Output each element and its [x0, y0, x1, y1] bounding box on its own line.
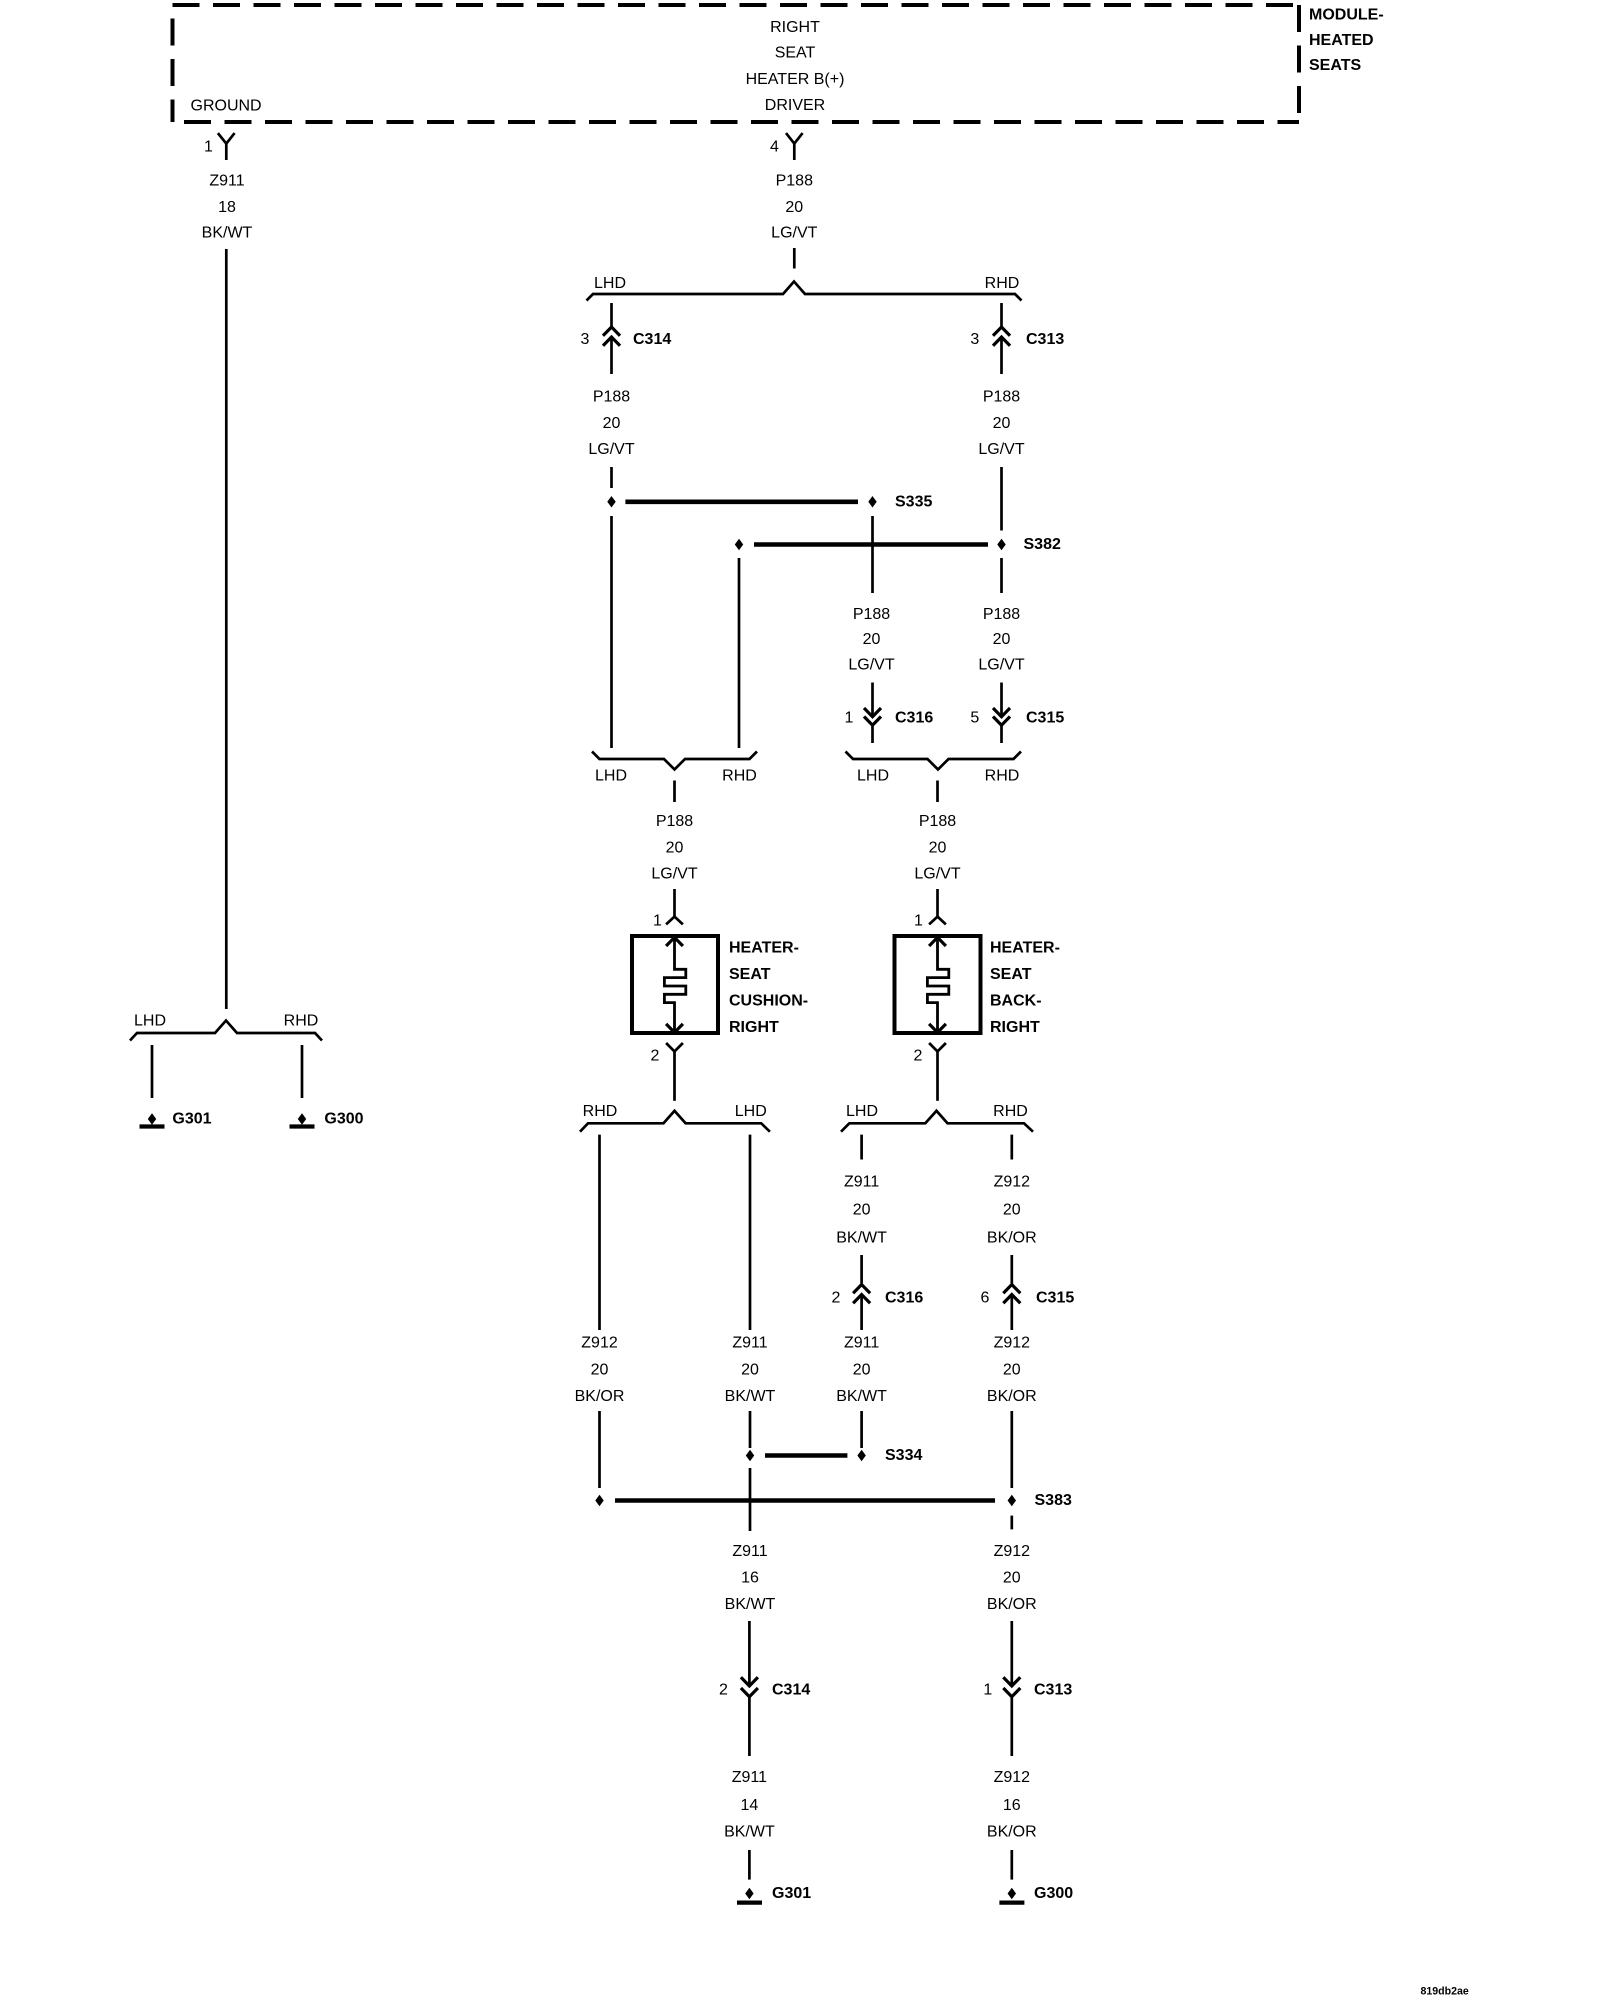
- splice S335: [608, 497, 876, 507]
- value label Z912 20 BK/OR (to C313): [987, 1543, 1037, 1613]
- svg-text:P188: P188: [983, 606, 1020, 623]
- svg-text:LHD: LHD: [595, 768, 627, 785]
- svg-text:BK/WT: BK/WT: [836, 1388, 887, 1405]
- svg-text:3: 3: [581, 331, 590, 348]
- wire col4 to S383: [1010, 1411, 1013, 1488]
- svg-text:S335: S335: [895, 493, 932, 510]
- wire below S382 left tap: [738, 558, 741, 748]
- svg-text:SEAT: SEAT: [729, 966, 771, 983]
- wire to G301: [748, 1850, 751, 1880]
- svg-text:20: 20: [591, 1362, 609, 1379]
- wire cushion feed stub: [673, 781, 676, 803]
- svg-text:20: 20: [1003, 1570, 1021, 1587]
- svg-text:BACK-: BACK-: [990, 993, 1042, 1010]
- wire below S334 crossing S383: [749, 1468, 752, 1531]
- pin 4 (module HEATER B+ pin connector): [786, 133, 803, 160]
- splice S383: [596, 1496, 1016, 1506]
- svg-text:CUSHION-: CUSHION-: [729, 993, 808, 1010]
- svg-text:20: 20: [993, 415, 1011, 432]
- wire col3 to S334: [860, 1411, 863, 1448]
- svg-text:C316: C316: [895, 710, 933, 727]
- wire from S335 down (middle column): [871, 516, 874, 593]
- svg-text:1: 1: [204, 139, 213, 156]
- svg-text:2: 2: [719, 1682, 728, 1699]
- value label P188 20 LG/VT (RHD branch): [978, 389, 1024, 459]
- connector C315 pin 5 (in-line, down): [993, 708, 1010, 725]
- ground G301 (left): [140, 1114, 165, 1126]
- wire stub above S382 right: [1000, 467, 1003, 531]
- svg-text:3: 3: [970, 331, 979, 348]
- value label P188 20 LG/VT (right column): [978, 606, 1024, 674]
- value label P188 20 LG/VT (feed wire): [771, 173, 817, 242]
- svg-text:LG/VT: LG/VT: [978, 657, 1024, 674]
- svg-text:20: 20: [863, 631, 881, 648]
- svg-text:S383: S383: [1035, 1492, 1072, 1509]
- wire col2 to S334: [749, 1411, 752, 1448]
- svg-text:RHD: RHD: [993, 1103, 1028, 1120]
- module title MODULE-HEATED SEATS: [1309, 7, 1384, 75]
- svg-text:RHD: RHD: [985, 768, 1020, 785]
- connector C314 pin 2 (in-line, down): [741, 1677, 758, 1696]
- svg-text:Z911: Z911: [732, 1335, 767, 1352]
- svg-text:C315: C315: [1026, 710, 1064, 727]
- svg-text:P188: P188: [983, 389, 1020, 406]
- svg-text:BK/OR: BK/OR: [987, 1230, 1037, 1247]
- wire LHD ground branch: [151, 1045, 154, 1098]
- svg-text:MODULE-: MODULE-: [1309, 7, 1384, 24]
- svg-text:SEATS: SEATS: [1309, 57, 1361, 74]
- wire to cushion heater pin 1: [673, 889, 676, 917]
- svg-text:C315: C315: [1036, 1290, 1074, 1307]
- svg-text:LHD: LHD: [134, 1013, 166, 1030]
- wire below S382 right (to P188 label): [1000, 558, 1003, 593]
- ground G301 (bottom): [737, 1889, 762, 1903]
- pin 1 (heater-seat cushion-right): [666, 917, 683, 925]
- module box MODULE-HEATED SEATS (dashed outline): [173, 5, 1300, 122]
- svg-text:C313: C313: [1034, 1682, 1072, 1699]
- svg-text:BK/WT: BK/WT: [725, 1596, 776, 1613]
- svg-text:20: 20: [603, 415, 621, 432]
- merge brace LHD/RHD back feed: [846, 752, 1022, 770]
- svg-text:1: 1: [653, 913, 662, 930]
- svg-text:Z912: Z912: [994, 1543, 1031, 1560]
- svg-text:Z911: Z911: [732, 1769, 767, 1786]
- splice S334: [746, 1451, 865, 1461]
- svg-text:BK/OR: BK/OR: [987, 1596, 1037, 1613]
- connector C313 pin 1 (in-line, down): [1003, 1677, 1020, 1696]
- wire back LHD to C316: [860, 1255, 863, 1284]
- svg-text:RIGHT: RIGHT: [729, 1019, 779, 1036]
- svg-text:2: 2: [832, 1290, 841, 1307]
- wire to C314 bottom: [748, 1621, 751, 1686]
- splice S382: [735, 540, 1005, 550]
- svg-text:819db2ae: 819db2ae: [1421, 1986, 1469, 1998]
- svg-text:20: 20: [785, 199, 803, 216]
- svg-text:LHD: LHD: [594, 275, 626, 292]
- svg-text:RHD: RHD: [985, 275, 1020, 292]
- svg-text:RHD: RHD: [722, 768, 757, 785]
- svg-text:14: 14: [741, 1797, 759, 1814]
- wire stub below S383 right: [1010, 1516, 1013, 1530]
- svg-text:20: 20: [993, 631, 1011, 648]
- svg-text:LG/VT: LG/VT: [848, 657, 894, 674]
- svg-text:LG/VT: LG/VT: [651, 866, 697, 883]
- wire P188 stub: [793, 248, 796, 269]
- svg-text:C314: C314: [633, 331, 671, 348]
- svg-text:BK/OR: BK/OR: [987, 1388, 1037, 1405]
- svg-text:S382: S382: [1024, 536, 1061, 553]
- node RIGHT SEAT HEATER B(+) DRIVER (module pin label): [746, 19, 845, 114]
- label HEATER-SEAT CUSHION-RIGHT: [729, 940, 808, 1037]
- svg-text:G300: G300: [1034, 1885, 1073, 1902]
- svg-text:20: 20: [666, 840, 684, 857]
- svg-text:C316: C316: [885, 1290, 923, 1307]
- ground G300 (left): [290, 1114, 315, 1126]
- svg-text:20: 20: [741, 1362, 759, 1379]
- svg-text:6: 6: [981, 1290, 990, 1307]
- svg-text:HEATER-: HEATER-: [990, 940, 1060, 957]
- pin 1 (heater-seat back-right): [929, 917, 946, 925]
- wire cushion RHD return: [598, 1135, 601, 1330]
- connector C316 pin 1 (in-line, down): [864, 708, 881, 725]
- svg-text:DRIVER: DRIVER: [765, 97, 825, 114]
- connector C316 pin 2 (in-line, up): [853, 1285, 870, 1304]
- svg-text:1: 1: [845, 710, 854, 727]
- value label P188 20 LG/VT (back feed): [914, 813, 960, 883]
- svg-text:RHD: RHD: [583, 1103, 618, 1120]
- pin 2 (heater-seat cushion-right): [666, 1043, 683, 1101]
- svg-text:SEAT: SEAT: [775, 45, 816, 62]
- svg-text:20: 20: [853, 1362, 871, 1379]
- svg-text:LG/VT: LG/VT: [914, 866, 960, 883]
- connector C313 pin 3 (in-line, up): [993, 327, 1010, 346]
- svg-text:BK/OR: BK/OR: [575, 1388, 625, 1405]
- svg-text:Z911: Z911: [732, 1543, 767, 1560]
- svg-text:LHD: LHD: [735, 1103, 767, 1120]
- svg-text:Z911: Z911: [844, 1335, 879, 1352]
- svg-text:Z911: Z911: [844, 1174, 879, 1191]
- svg-text:SEAT: SEAT: [990, 966, 1032, 983]
- wire middle column to C316: [871, 683, 874, 717]
- svg-text:LHD: LHD: [857, 768, 889, 785]
- svg-text:Z912: Z912: [994, 1335, 1031, 1352]
- splice brace LHD/RHD ground split: [130, 1021, 322, 1041]
- svg-text:P188: P188: [853, 606, 890, 623]
- connector C314 pin 3 (in-line, up): [603, 327, 620, 346]
- svg-text:18: 18: [218, 199, 236, 216]
- wire stub above S335: [610, 467, 613, 488]
- svg-text:HEATER-: HEATER-: [729, 940, 799, 957]
- svg-text:S334: S334: [885, 1447, 922, 1464]
- svg-text:2: 2: [651, 1048, 660, 1065]
- svg-text:BK/WT: BK/WT: [836, 1230, 887, 1247]
- value label Z911 20 BK/WT (back LHD return): [836, 1174, 887, 1247]
- wire below S335 left: [610, 516, 613, 748]
- svg-text:RHD: RHD: [284, 1013, 319, 1030]
- svg-text:RIGHT: RIGHT: [990, 1019, 1040, 1036]
- wire back RHD to C315: [1010, 1255, 1013, 1284]
- svg-text:BK/WT: BK/WT: [724, 1824, 775, 1841]
- svg-text:C314: C314: [772, 1682, 810, 1699]
- svg-text:RIGHT: RIGHT: [770, 19, 820, 36]
- svg-text:HEATED: HEATED: [1309, 32, 1374, 49]
- svg-text:HEATER B(+): HEATER B(+): [746, 71, 845, 88]
- value label P188 20 LG/VT (cushion feed): [651, 813, 697, 883]
- svg-text:Z912: Z912: [994, 1174, 1031, 1191]
- svg-text:4: 4: [770, 139, 779, 156]
- wire RHD branch to C313: [1000, 303, 1003, 326]
- wire back feed stub: [936, 781, 939, 803]
- wire to C313 bottom: [1010, 1621, 1013, 1686]
- svg-text:P188: P188: [919, 813, 956, 830]
- svg-text:LG/VT: LG/VT: [588, 441, 634, 458]
- ground G300 (bottom): [999, 1889, 1024, 1903]
- pin 2 (heater-seat back-right): [929, 1043, 946, 1101]
- value label P188 20 LG/VT (LHD branch): [588, 389, 634, 459]
- merge brace LHD/RHD cushion feed: [592, 752, 757, 770]
- value label Z912 16 BK/OR (ground leg): [987, 1769, 1037, 1841]
- wire RHD ground branch: [301, 1045, 304, 1098]
- wire back LHD return stub: [860, 1135, 863, 1160]
- svg-text:C313: C313: [1026, 331, 1064, 348]
- svg-text:5: 5: [970, 710, 979, 727]
- label HEATER-SEAT BACK-RIGHT: [990, 940, 1060, 1037]
- value label Z911 18 BK/WT (left wire): [202, 173, 253, 242]
- heater-seat back-right box: [895, 936, 981, 1033]
- wire col1 to S383: [598, 1411, 601, 1488]
- wire right column to C315: [1000, 683, 1003, 717]
- splice brace LHD/RHD feed split: [587, 282, 1022, 301]
- svg-text:16: 16: [1003, 1797, 1021, 1814]
- connector C315 pin 6 (in-line, up): [1003, 1285, 1020, 1304]
- heater element (back): [927, 937, 948, 1032]
- wire to G300: [1010, 1850, 1013, 1880]
- svg-text:G300: G300: [324, 1111, 363, 1128]
- value label Z911 20 BK/WT (col 2): [725, 1335, 776, 1406]
- svg-text:Z912: Z912: [581, 1335, 618, 1352]
- value label Z912 20 BK/OR (back RHD return): [987, 1174, 1037, 1247]
- svg-text:LHD: LHD: [846, 1103, 878, 1120]
- wire to back heater pin 1: [936, 889, 939, 917]
- svg-text:LG/VT: LG/VT: [771, 225, 817, 242]
- value label Z911 14 BK/WT (ground leg): [724, 1769, 775, 1841]
- wire LHD branch to C314: [610, 303, 613, 326]
- wire cushion LHD return: [749, 1135, 752, 1330]
- svg-text:Z911: Z911: [209, 173, 244, 190]
- svg-text:P188: P188: [656, 813, 693, 830]
- svg-text:GROUND: GROUND: [191, 98, 262, 115]
- splice brace LHD/RHD back return: [841, 1111, 1033, 1132]
- svg-text:20: 20: [1003, 1362, 1021, 1379]
- wire Z911 long left vertical: [225, 249, 228, 1009]
- svg-text:Z912: Z912: [994, 1769, 1031, 1786]
- svg-text:G301: G301: [172, 1111, 211, 1128]
- value label Z912 20 BK/OR (col 1): [575, 1335, 625, 1406]
- svg-text:20: 20: [1003, 1202, 1021, 1219]
- svg-text:1: 1: [914, 913, 923, 930]
- pin 1 (module GROUND pin connector): [218, 133, 235, 160]
- heater-seat cushion-right box: [632, 936, 718, 1033]
- svg-text:LG/VT: LG/VT: [978, 441, 1024, 458]
- svg-text:20: 20: [929, 840, 947, 857]
- value label Z912 20 BK/OR (col 4): [987, 1335, 1037, 1406]
- svg-text:G301: G301: [772, 1885, 811, 1902]
- svg-text:BK/WT: BK/WT: [202, 225, 253, 242]
- svg-text:1: 1: [983, 1682, 992, 1699]
- svg-text:20: 20: [853, 1202, 871, 1219]
- wire back RHD return stub: [1010, 1135, 1013, 1160]
- svg-text:2: 2: [914, 1048, 923, 1065]
- splice brace RHD/LHD cushion return: [580, 1111, 770, 1132]
- svg-text:BK/WT: BK/WT: [725, 1388, 776, 1405]
- value label Z911 16 BK/WT (to C314): [725, 1543, 776, 1613]
- value label P188 20 LG/VT (middle column): [848, 606, 894, 674]
- heater element (cushion): [664, 937, 685, 1032]
- svg-text:P188: P188: [776, 173, 813, 190]
- svg-text:P188: P188: [593, 389, 630, 406]
- value label Z911 20 BK/WT (col 3): [836, 1335, 887, 1406]
- svg-text:BK/OR: BK/OR: [987, 1824, 1037, 1841]
- svg-text:16: 16: [741, 1570, 759, 1587]
